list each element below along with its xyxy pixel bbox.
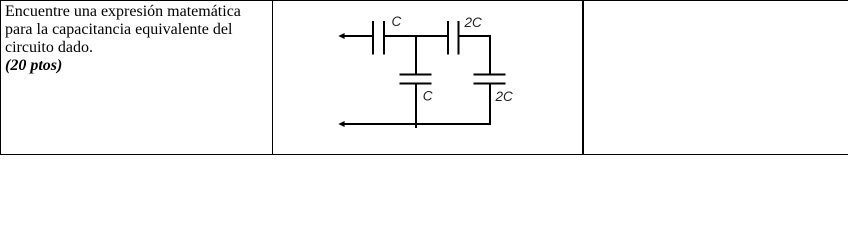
wire C4 down to bottom wire [489,84,491,125]
wire C3 down through bottom node [415,84,417,128]
terminal arrow top-left [338,33,344,39]
capacitor C1 value C [373,14,402,55]
wire right vertical down to C4 [489,35,491,74]
svg-text:C: C [392,14,402,29]
wire bottom horizontal [342,123,491,125]
capacitor C4 value 2C [474,75,514,105]
wire top-left horizontal [342,35,373,37]
wire C2 to right corner [459,35,491,37]
svg-text:C: C [423,89,433,104]
capacitor C3 value C [400,75,433,104]
svg-text:2C: 2C [495,89,514,104]
table borders (decorative) [0,0,848,1]
node A vertical wire to C3 [415,35,417,74]
wire between C1 and C2 [385,35,448,37]
capacitor C2 value 2C [448,15,482,55]
svg-text:2C: 2C [464,15,483,30]
terminal arrow bottom-left [338,121,344,127]
